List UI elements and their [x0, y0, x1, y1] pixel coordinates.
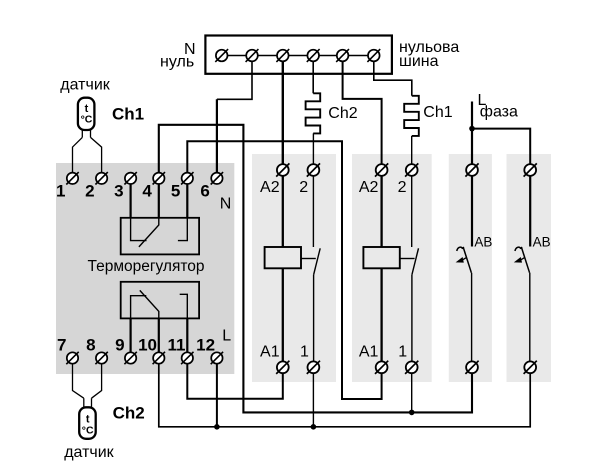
wire pin 5 to contactor K2 A1 [187, 141, 381, 399]
contactor K1 contact blade [314, 248, 321, 274]
svg-text:10: 10 [138, 336, 157, 355]
svg-text:A2: A2 [260, 179, 280, 196]
bus terminal N3 [276, 49, 289, 62]
svg-text:Терморегулятор: Терморегулятор [88, 258, 205, 275]
wire bus N6 to coil Ch1 [374, 61, 412, 96]
junction K2 pin1 / AB1 line [409, 410, 415, 416]
wire coil Ch2 to contactor K1 pin 2 [312, 133, 314, 164]
junction K1 pin1 / AB2 line [311, 424, 317, 430]
wire down to pin 6 (N) [216, 99, 218, 172]
thermostat pin 8 [95, 352, 107, 364]
wire pin 5 to relay 1 [186, 184, 188, 218]
svg-text:Ch1: Ch1 [112, 105, 144, 124]
thermostat pin 10 [153, 352, 165, 364]
sensor Ch2 stem right [91, 398, 93, 407]
svg-text:4: 4 [142, 181, 152, 200]
sensor Ch1 capsule [78, 98, 95, 130]
terminal K1 A1 [276, 361, 289, 374]
contactor K1 body (gray) [252, 154, 336, 382]
thermostat pin 1 [66, 172, 78, 184]
wire pin 4 to relay 1 [158, 184, 160, 218]
wire pin 3 to relay 1 [130, 184, 132, 218]
breaker AB1 fixed wire [471, 176, 473, 247]
sensor Ch2 lead to pin 7 [73, 364, 84, 399]
relay 2 NC contact (pin 9) [131, 296, 147, 319]
breaker AB2 trip arrow shaft [520, 257, 525, 260]
relay 2 blade (pin 10) [140, 290, 159, 318]
breaker AB1 latch hook [457, 247, 464, 251]
relay 2 outline [121, 282, 199, 319]
wire phase branch to breaker AB2 [472, 129, 530, 165]
sensor Ch1 lead to pin 2 [91, 137, 102, 172]
sensor Ch2 lead to pin 8 [92, 364, 102, 399]
terminal K1 2 [307, 163, 320, 176]
relay 2 NO contact (pin 11) [180, 294, 188, 318]
svg-text:2: 2 [85, 181, 94, 200]
terminal AB1 top [465, 163, 478, 176]
svg-text:°C: °C [81, 114, 93, 126]
wire bus N5 to contactor K2 A2 [343, 61, 382, 164]
terminal AB1 bottom [465, 361, 478, 374]
breaker AB2 lower wire [529, 273, 531, 362]
svg-text:3: 3 [114, 181, 123, 200]
wire K2 pin 1 drop [411, 373, 413, 412]
terminal K2 A2 [375, 163, 388, 176]
sensor Ch1 lead to pin 1 [73, 137, 83, 172]
heater coil Ch1 [404, 96, 419, 136]
terminal K1 1 [307, 361, 320, 374]
svg-text:°C: °C [82, 424, 94, 436]
neutral bus bar box [205, 36, 392, 74]
thermostat unit body (gray) [56, 163, 234, 374]
wire pin 10 to phase rail (via AB2) [159, 364, 530, 427]
contactor K1 coil [265, 247, 301, 268]
relay 1 outline [121, 218, 199, 255]
sensor Ch1 stem right [90, 130, 92, 137]
wire K1 coil to A1 [282, 268, 284, 361]
svg-text:датчик: датчик [60, 76, 110, 93]
contactor K2 contact blade [412, 248, 419, 274]
thermostat pin 3 [124, 172, 136, 184]
svg-text:фаза: фаза [480, 104, 518, 121]
terminal AB2 top [524, 163, 537, 176]
terminal K1 A2 [276, 163, 289, 176]
wire K1 A2 to coil [282, 176, 284, 247]
svg-text:9: 9 [115, 336, 124, 355]
svg-text:Ch1: Ch1 [423, 104, 452, 121]
svg-text:АВ: АВ [533, 234, 551, 249]
svg-text:8: 8 [86, 336, 95, 355]
breaker AB1 lower wire [471, 273, 473, 362]
wire K1 contact to pin 1 [313, 275, 315, 362]
breaker AB2 latch hook [515, 247, 522, 251]
terminal AB2 bottom [524, 361, 537, 374]
svg-text:L: L [222, 328, 231, 345]
wire pin 4 to phase rail (via AB1) [159, 125, 472, 413]
bus terminal N4 [307, 49, 320, 62]
wire relay 2 to pin 11 [186, 318, 188, 352]
junction pin 12 / AB2 line [214, 424, 220, 430]
bus terminal N2 [246, 49, 259, 62]
wire K2 contact to pin 1 [411, 275, 413, 362]
svg-text:A2: A2 [359, 179, 379, 196]
svg-text:A1: A1 [359, 343, 379, 360]
breaker AB2 fixed wire [529, 176, 531, 247]
bus terminal N5 [336, 49, 349, 62]
terminal K2 A1 [375, 361, 388, 374]
svg-text:12: 12 [196, 336, 215, 355]
svg-text:A1: A1 [260, 343, 280, 360]
bus terminal N6 [367, 49, 380, 62]
thermostat pin 5 [181, 172, 193, 184]
svg-text:2: 2 [398, 179, 407, 196]
breaker AB1 blade [463, 247, 471, 273]
contactor K2 coil [363, 247, 399, 268]
svg-text:1: 1 [398, 343, 407, 360]
contactor K1 actuator link [301, 258, 316, 260]
thermostat pin 7 [66, 352, 78, 364]
thermostat pin 12 [211, 352, 223, 364]
relay 1 NC contact (pin 3) [131, 218, 147, 241]
wire bus N2 to thermostat pin 6 [217, 61, 252, 99]
breaker AB1 trip arrow shaft [461, 257, 466, 260]
thermostat pin 6 [211, 172, 223, 184]
svg-text:11: 11 [168, 336, 186, 355]
sensor Ch2 stem left [83, 398, 85, 407]
wire bus N4 to coil Ch2 [312, 61, 314, 93]
wire bus N3 to contactor K1 A2 [282, 61, 284, 164]
junction phase split [469, 126, 475, 132]
wire K1 pin 1 drop [312, 373, 314, 427]
breaker AB2 blade [521, 247, 529, 273]
contactor K2 actuator link [400, 258, 415, 260]
breaker AB1 body (gray) [449, 154, 492, 382]
wire coil Ch1 to contactor K2 pin 2 [411, 136, 413, 164]
svg-text:N: N [220, 196, 232, 213]
svg-text:5: 5 [171, 181, 180, 200]
thermostat pin 9 [124, 352, 136, 364]
wire relay 2 to pin 10 [158, 318, 160, 352]
svg-text:нуль: нуль [160, 54, 194, 71]
thermostat pin 2 [95, 172, 107, 184]
breaker AB2 trip arrow head [514, 257, 522, 263]
wire K2 pin 2 to contact [411, 176, 413, 247]
relay 1 blade (pin 4) [139, 218, 159, 247]
svg-text:6: 6 [200, 181, 209, 200]
svg-text:1: 1 [56, 181, 65, 200]
svg-text:Ch2: Ch2 [113, 403, 145, 422]
svg-text:шина: шина [399, 53, 439, 70]
sensor Ch2 capsule [79, 407, 96, 439]
thermostat pin 4 [153, 172, 165, 184]
wire relay 2 to pin 9 [130, 318, 132, 352]
svg-text:датчик: датчик [64, 444, 114, 461]
relay 1 NO contact (pin 5) [178, 218, 187, 241]
wire K2 A2 to coil [380, 176, 382, 247]
bus terminal N1 [215, 49, 228, 62]
terminal K2 1 [405, 361, 418, 374]
neutral bus wire [222, 55, 374, 57]
wire K2 coil to A1 [380, 268, 382, 361]
wire L phase to breaker AB1 [471, 102, 473, 165]
wire K1 pin 2 to contact [312, 176, 314, 247]
breaker AB1 trip arrow head [456, 257, 464, 263]
sensor Ch1 stem left [81, 130, 83, 137]
svg-text:2: 2 [299, 179, 308, 196]
svg-text:7: 7 [57, 336, 66, 355]
thermostat pin 11 [181, 352, 193, 364]
heater coil Ch2 [306, 93, 321, 133]
wire pin 11 to contactor K1 A1 [187, 364, 282, 399]
svg-text:1: 1 [300, 343, 309, 360]
breaker AB2 body (gray) [507, 154, 552, 382]
svg-text:Ch2: Ch2 [328, 105, 357, 122]
wire pin 12 drop [216, 364, 218, 427]
terminal K2 2 [405, 163, 418, 176]
contactor K2 body (gray) [352, 154, 432, 382]
svg-text:АВ: АВ [474, 234, 492, 249]
